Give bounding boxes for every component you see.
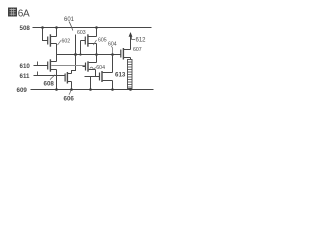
svg-text:6A: 6A [18, 8, 30, 19]
transistor T6 (middle-right) [86, 61, 97, 71]
wire: node line (Q1 drain to Q5 gate) [57, 54, 121, 56]
wire: T6 drain up to node F [96, 55, 98, 63]
node I: dot [70, 88, 73, 91]
node H: dot [55, 88, 58, 91]
transistor T5 (lower-right) [100, 71, 113, 82]
label 605 with leader [93, 40, 96, 45]
node K: dot [111, 88, 114, 91]
wire: Q2 drain to node F [96, 44, 98, 55]
transistor Q2 (mirrored, gate left) [85, 34, 96, 46]
node L: dot [129, 88, 132, 91]
transistor T3 (lower-left) [48, 59, 57, 71]
leader stub above node G [112, 48, 114, 55]
svg-text:613: 613 [115, 71, 126, 78]
wire: Q1 drain down [56, 44, 58, 55]
wire: vertical under rail to node D [75, 35, 77, 55]
svg-text:508: 508 [20, 25, 31, 32]
wire: T5 source down to bottom rail [112, 81, 114, 90]
wire: T3 source down to bottom rail [56, 70, 58, 90]
tick on 610 wire [37, 62, 39, 66]
wire: T3 drain up to node line [56, 55, 58, 62]
wire: T6 gate stub [83, 66, 86, 68]
wire: bottom rail [31, 89, 154, 91]
transistor Q5 (output) [121, 48, 131, 60]
wire: T5 drain up to node G [112, 55, 114, 73]
wire: 611 gate line [34, 75, 66, 77]
wire: rail to Q1 gate [43, 28, 48, 41]
wire: node D down with jog to T4 [72, 55, 76, 74]
transistor T4 (lower-middle) [65, 72, 71, 84]
wire: element to bottom rail [130, 89, 132, 90]
wire: faint 610 net continuation to T6 gate [51, 65, 85, 67]
tick on 611 wire [37, 72, 39, 76]
label 612 with leader [132, 37, 136, 40]
wire: 610 gate line [34, 65, 48, 67]
wire: Q5 drain up with arrow toward rail [130, 36, 132, 50]
svg-text:603: 603 [77, 30, 86, 36]
label 602 with leader [58, 40, 62, 45]
node B: rail junction dot at x=56 [55, 26, 58, 29]
node J: dot [89, 88, 92, 91]
svg-text:608: 608 [44, 80, 55, 87]
svg-text:604: 604 [96, 65, 105, 71]
wire: Q5 source down to element [130, 58, 132, 60]
svg-text:602: 602 [62, 39, 71, 45]
node E: dot at x=80 [79, 53, 81, 55]
svg-text:609: 609 [17, 87, 28, 94]
wire: Q2 source to rail [96, 28, 98, 37]
wire: top power rail [33, 27, 152, 29]
svg-text:606: 606 [64, 95, 75, 102]
svg-text:612: 612 [136, 37, 147, 43]
wire: Q1 source to rail [56, 28, 58, 37]
node G: dot at x=112.5 [111, 53, 114, 56]
svg-text:604: 604 [108, 41, 117, 47]
node D: dot at x=75.5 [74, 53, 77, 56]
node A: rail junction dot at x=42 [41, 26, 44, 29]
svg-text:610: 610 [20, 63, 31, 70]
wire: T6 source down [95, 70, 97, 77]
element 613: hatched ladder box [128, 60, 133, 89]
wire: T5 gate line with ground tie [85, 77, 100, 90]
node F: dot at x=96 [95, 53, 98, 56]
transistor Q1 (602) [48, 34, 57, 46]
svg-text:607: 607 [133, 47, 142, 53]
wire: Q2 gate lead and drop to node line [81, 41, 86, 55]
arrow head up [129, 32, 133, 37]
svg-text:611: 611 [20, 73, 31, 80]
svg-text:605: 605 [98, 37, 107, 43]
figure title 図6A [8, 8, 17, 17]
label 604 with leader [90, 67, 96, 69]
node C: rail junction dot at x=96 [95, 26, 98, 29]
wire: T4 source to bottom rail [71, 82, 73, 90]
